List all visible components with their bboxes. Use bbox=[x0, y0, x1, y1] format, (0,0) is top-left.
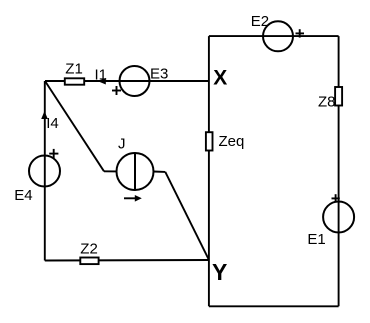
impedance Zeq bbox=[206, 132, 213, 150]
svg-text:E1: E1 bbox=[307, 231, 325, 248]
impedance Z8 bbox=[335, 87, 342, 106]
svg-text:E4: E4 bbox=[14, 187, 32, 204]
E1 polarity plus bbox=[332, 197, 340, 199]
wire: diagonal from node A to J left stub bbox=[45, 81, 104, 171]
current arrow I1 bbox=[98, 78, 106, 85]
wire: horizontal stub from J right terminal bbox=[153, 171, 165, 173]
svg-text:X: X bbox=[213, 67, 227, 90]
voltage source E4 bbox=[29, 156, 60, 187]
svg-text:Z2: Z2 bbox=[80, 240, 98, 257]
E4 polarity plus bbox=[49, 153, 58, 155]
svg-text:Y: Y bbox=[212, 259, 227, 285]
svg-text:E3: E3 bbox=[150, 65, 168, 82]
resistor Z1 bbox=[65, 78, 84, 84]
wire: left vertical from node A down to bottom-left corner bbox=[44, 81, 46, 261]
voltage source E1 bbox=[323, 202, 354, 233]
wire: right-loop top horizontal bbox=[209, 35, 339, 37]
wire: horizontal stub into J left terminal bbox=[104, 170, 117, 172]
E3 polarity plus bbox=[112, 90, 121, 92]
voltage source E2 bbox=[263, 21, 293, 51]
wire: right-loop right vertical bbox=[338, 36, 340, 306]
svg-text:Zeq: Zeq bbox=[219, 133, 245, 150]
wire: top-left horizontal from node A to node X bbox=[45, 80, 209, 82]
svg-text:I4: I4 bbox=[46, 115, 59, 132]
svg-text:Z8: Z8 bbox=[318, 93, 336, 110]
wire: right-loop bottom horizontal bbox=[209, 305, 339, 307]
svg-text:E2: E2 bbox=[251, 13, 269, 30]
svg-text:I1: I1 bbox=[95, 66, 108, 83]
voltage source E3 bbox=[120, 66, 150, 96]
current direction arrow for J bbox=[124, 197, 137, 199]
current arrow I4 bbox=[41, 111, 48, 119]
svg-text:J: J bbox=[118, 136, 126, 153]
wire: bottom-left horizontal to node Y bbox=[45, 259, 209, 262]
wire: diagonal from J right stub down to node Y bbox=[165, 172, 209, 260]
resistor Z2 bbox=[80, 258, 98, 265]
svg-text:Z1: Z1 bbox=[65, 61, 83, 78]
current source J bbox=[117, 153, 154, 190]
wire: right-loop left vertical through X, Zeq, Y bbox=[208, 36, 210, 306]
E2 polarity plus bbox=[296, 32, 305, 34]
